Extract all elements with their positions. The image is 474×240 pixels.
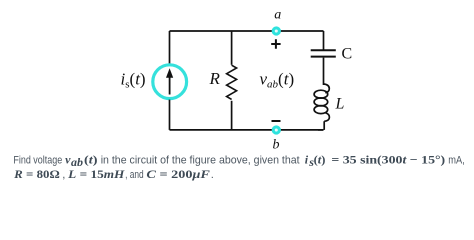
svg-text:b: b bbox=[273, 137, 280, 152]
svg-text:a: a bbox=[274, 8, 281, 23]
svg-text:(t): (t) bbox=[84, 152, 98, 166]
svg-text:mA,: mA, bbox=[448, 154, 465, 166]
capacitor C bbox=[311, 50, 336, 56]
wire right middle bbox=[323, 58, 325, 85]
problem text line 2 bbox=[13, 167, 214, 181]
svg-text:C: C bbox=[342, 45, 353, 62]
svg-text:L = 15mH: L = 15mH bbox=[67, 167, 125, 181]
svg-text:Find voltage: Find voltage bbox=[13, 154, 62, 166]
node b bbox=[273, 127, 279, 133]
node a bbox=[273, 28, 279, 34]
svg-text:R = 80Ω: R = 80Ω bbox=[13, 167, 60, 181]
polarity minus bbox=[272, 120, 281, 122]
problem text line 1 bbox=[13, 152, 464, 168]
wire right bottom bbox=[318, 121, 324, 130]
current source I1 bbox=[153, 65, 187, 99]
svg-text:in the circuit of the figure a: in the circuit of the figure above, give… bbox=[101, 154, 301, 166]
wire top rail bbox=[170, 30, 324, 32]
svg-text:(t): (t) bbox=[314, 152, 326, 166]
wire left bottom segment bbox=[169, 100, 171, 130]
svg-text:,: , bbox=[62, 169, 65, 181]
resistor R bbox=[227, 65, 237, 99]
wire bottom rail bbox=[170, 129, 324, 131]
svg-text:C = 200μF: C = 200μF bbox=[146, 167, 210, 181]
wire middle branch top bbox=[231, 31, 233, 65]
svg-text:i: i bbox=[305, 152, 309, 166]
svg-text:is(t): is(t) bbox=[121, 69, 146, 90]
svg-text:, and: , and bbox=[125, 169, 144, 181]
wire right top bbox=[323, 31, 325, 50]
svg-text:.: . bbox=[211, 169, 214, 181]
svg-text:vab(t): vab(t) bbox=[260, 69, 295, 90]
wire left top segment bbox=[169, 31, 171, 64]
polarity plus bbox=[271, 39, 280, 48]
wire middle branch bottom bbox=[231, 101, 233, 130]
svg-text:L: L bbox=[335, 95, 345, 112]
svg-text:R: R bbox=[209, 69, 221, 88]
inductor L bbox=[314, 84, 329, 121]
svg-text:= 35 sin(300t − 15°): = 35 sin(300t − 15°) bbox=[331, 152, 445, 166]
